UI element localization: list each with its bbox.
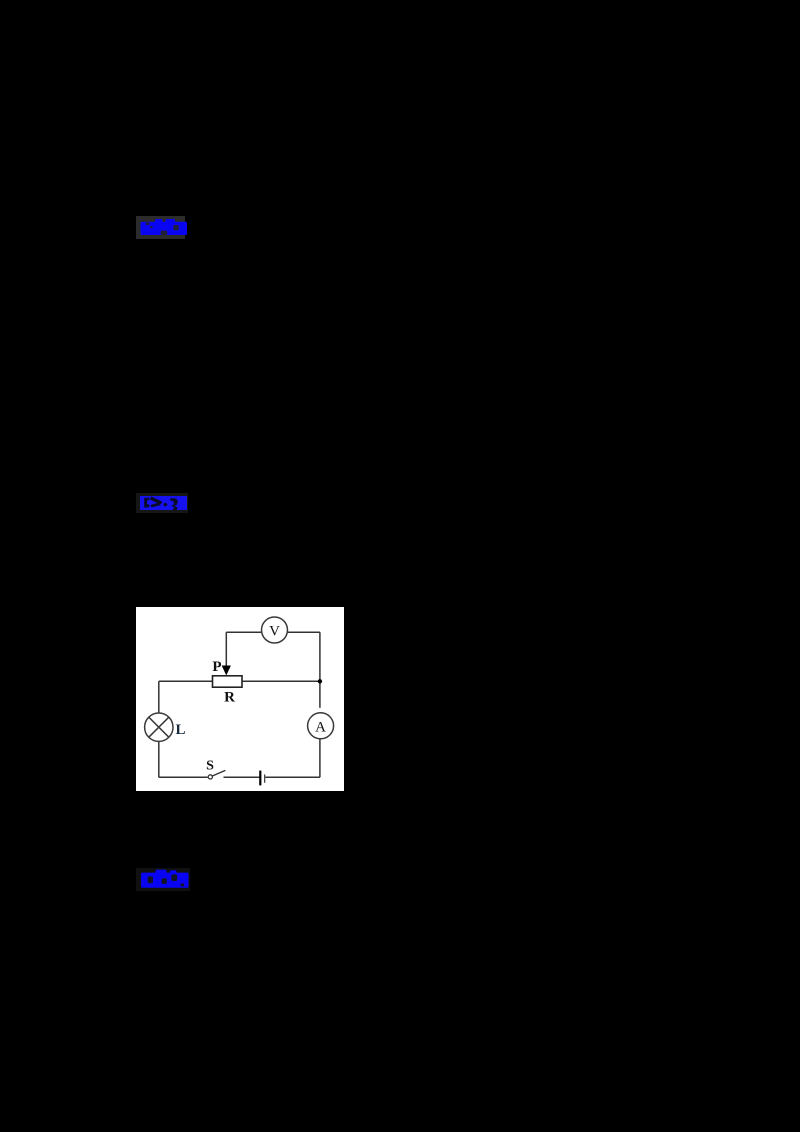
解 diagonal strokes — [150, 496, 163, 504]
svg-text:S: S — [206, 759, 214, 774]
top stroke bumps — [155, 219, 163, 224]
switch S — [208, 775, 212, 779]
dark notch centre — [162, 878, 167, 884]
main text mass — [141, 222, 188, 235]
svg-text:R: R — [224, 690, 235, 706]
dark nick bottom-right — [181, 883, 185, 886]
label block 3: 【点评】 blue text on black — [136, 868, 190, 891]
wire: left vertical above lamp — [158, 681, 160, 713]
ammeter A — [308, 713, 334, 739]
label block 2: 【解答】 black text on blue selection — [136, 493, 188, 513]
wire: switch to battery — [224, 776, 260, 778]
wire: down from V-branch to wiper P — [225, 632, 227, 668]
rheostat R — [213, 676, 243, 687]
bracket mark left — [144, 498, 149, 508]
svg-text:A: A — [315, 719, 326, 735]
答 curved mark right — [170, 498, 178, 510]
battery cell — [259, 771, 261, 786]
svg-text:P: P — [212, 659, 221, 675]
wire: left vertical below lamp — [158, 741, 160, 777]
wire: ammeter bottom to battery line — [319, 734, 321, 778]
dark notch right-centre — [173, 225, 178, 230]
wiper arrow P — [222, 666, 231, 676]
dark notch right — [171, 874, 177, 881]
white figure box — [136, 607, 344, 791]
label block 1: 【分析】 blue text on dark grey highlight — [136, 216, 185, 239]
dark notch bottom-centre — [161, 231, 168, 235]
svg-text:V: V — [269, 624, 280, 640]
lamp L — [145, 713, 173, 741]
top stroke bumps — [156, 870, 167, 875]
dark sliver upper-left — [146, 222, 150, 225]
dark notch left — [148, 876, 153, 883]
main text mass — [141, 873, 189, 888]
voltmeter V — [262, 617, 288, 643]
wire: voltmeter branch top — [226, 631, 262, 633]
node junction dot — [318, 679, 322, 683]
wire: bottom left to switch — [159, 776, 208, 778]
svg-text:L: L — [175, 722, 185, 738]
wire: battery to right corner — [265, 776, 320, 778]
wire: right vertical (V right to node to ammeter) — [319, 632, 321, 708]
wire: main horizontal through rheostat — [159, 680, 213, 682]
